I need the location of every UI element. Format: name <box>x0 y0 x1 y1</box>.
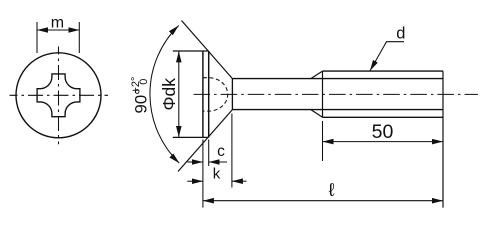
svg-text:k: k <box>213 165 221 182</box>
svg-text:0: 0 <box>138 79 150 85</box>
dia dk dimension line <box>178 51 180 137</box>
svg-text:c: c <box>217 143 225 160</box>
circle vertical centerline <box>58 47 60 145</box>
head circle (top view) <box>16 53 101 138</box>
main horizontal centerline <box>194 93 479 95</box>
head bottom edge + dk extension <box>173 136 209 138</box>
dimension m line with arrows <box>37 29 79 31</box>
svg-text:ℓ: ℓ <box>329 179 335 200</box>
dimension k right arrow <box>232 180 247 182</box>
thread start line <box>322 71 324 117</box>
thread crest bottom line <box>323 116 444 118</box>
svg-text:Φdk: Φdk <box>159 78 179 111</box>
head left face <box>202 51 204 137</box>
90 degree dimension arc <box>150 26 179 164</box>
phillips recess outline <box>37 74 80 117</box>
extension line below junction for k <box>231 114 233 188</box>
dimension k left arrow <box>187 180 203 182</box>
leader line for d <box>370 42 404 71</box>
screw end face line + extension <box>442 71 444 208</box>
dimension c left arrow <box>187 161 203 163</box>
recess hidden outline (dashed) <box>203 78 228 111</box>
thread runout bottom diagonal <box>311 110 323 118</box>
cone bottom edge extended for angle dim <box>178 110 232 172</box>
svg-text:m: m <box>51 15 64 32</box>
dimension m extension line left <box>36 22 38 53</box>
extension line below thread start for 50 <box>322 121 324 161</box>
svg-text:50: 50 <box>372 121 394 143</box>
shank top line (thread root) <box>232 78 443 80</box>
dimension l overall line <box>203 200 443 202</box>
dimension m extension line right <box>78 22 80 53</box>
shank bottom line (thread root) <box>232 109 443 111</box>
thread crest top line <box>323 70 444 72</box>
extension line below c edge <box>208 140 210 167</box>
thread runout top diagonal <box>311 71 323 79</box>
circle horizontal centerline <box>10 94 109 96</box>
dimension c right arrow <box>209 161 227 163</box>
dimension 50 line <box>323 141 444 143</box>
head top edge + dk extension <box>173 50 209 52</box>
cone top edge extended for angle dim <box>182 21 233 79</box>
svg-text:d: d <box>396 25 405 43</box>
extension line below head left face <box>202 140 204 208</box>
head/shank junction line <box>231 79 233 110</box>
head edge line (c band) <box>208 51 210 137</box>
